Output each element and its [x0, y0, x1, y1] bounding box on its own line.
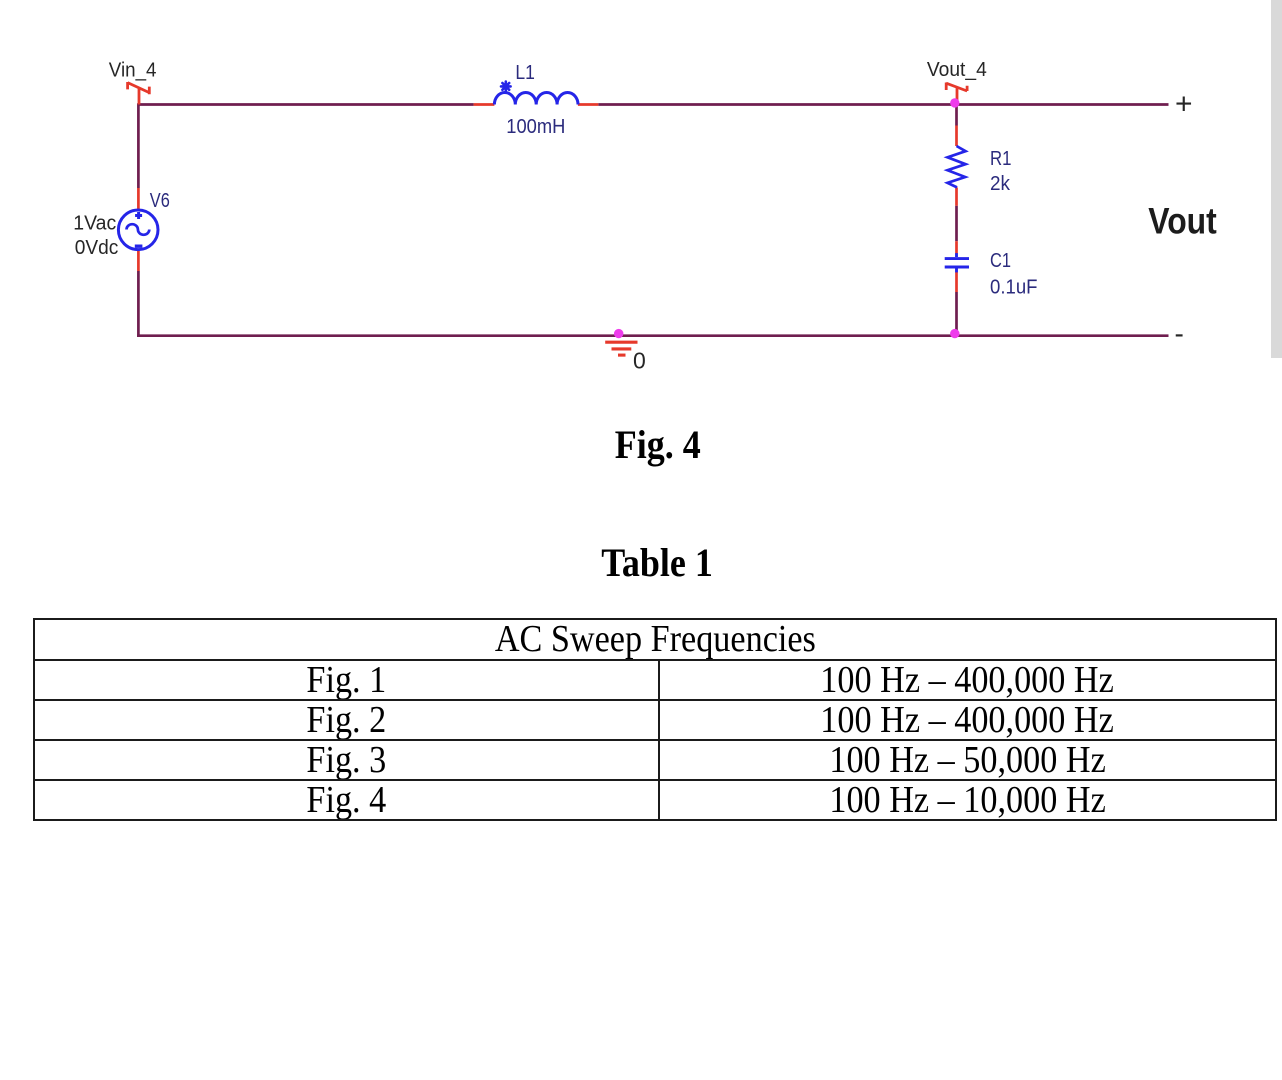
- net marker Vin_4: [128, 82, 150, 105]
- voltage source V6 circle: [118, 210, 158, 250]
- svg-text:0Vdc: 0Vdc: [75, 237, 119, 259]
- wire right branch segment mid: [955, 206, 958, 242]
- pin stub C1 top: [955, 241, 958, 253]
- V6 plus sign: [135, 212, 142, 219]
- svg-text:1Vac: 1Vac: [73, 213, 116, 235]
- svg-text:0: 0: [633, 348, 646, 374]
- svg-text:V6: V6: [150, 190, 170, 212]
- capacitor C1: [945, 253, 969, 272]
- table: AC Sweep Frequencies: [33, 618, 1277, 821]
- svg-text:R1: R1: [990, 148, 1012, 170]
- wire top right segment: [598, 103, 1168, 106]
- wire left vertical (bottom part, source bottom lead): [137, 271, 140, 337]
- svg-text:C1: C1: [990, 250, 1011, 272]
- pin stub R1 top: [955, 126, 958, 147]
- wire left vertical (top part, source top lead): [137, 103, 140, 188]
- caption Fig. 4: [35, 425, 1280, 465]
- pin stub C1 bottom: [955, 272, 958, 292]
- svg-text:0.1uF: 0.1uF: [990, 277, 1038, 299]
- net marker Vout_4: [946, 83, 967, 105]
- pin stub V6 bottom: [137, 251, 140, 271]
- junction node dot top (Vout node): [950, 98, 959, 107]
- inductor pin-1 marker (flower): [501, 82, 511, 92]
- pin stub V6 top: [137, 188, 140, 210]
- junction node dot ground: [614, 329, 623, 338]
- svg-text:-: -: [1175, 318, 1184, 349]
- svg-text:100mH: 100mH: [506, 116, 565, 138]
- caption Table 1: [35, 543, 1280, 583]
- svg-text:L1: L1: [515, 62, 535, 84]
- V6 minus sign: [135, 244, 143, 247]
- svg-text:Vout_4: Vout_4: [927, 59, 987, 81]
- inductor L1 coil: [494, 92, 578, 104]
- circuit schematic: [0, 0, 1282, 400]
- pin stub inductor left: [474, 103, 495, 106]
- wire right branch segment bottom: [955, 292, 958, 336]
- wire right branch segment top: [955, 105, 958, 126]
- svg-text:2k: 2k: [990, 173, 1011, 195]
- wire top left segment: [138, 103, 473, 106]
- window scrollbar remnant: [1271, 0, 1282, 358]
- junction node dot bottom right: [950, 329, 959, 338]
- ground symbol 0: [605, 342, 637, 355]
- pin stub inductor right: [578, 103, 598, 106]
- resistor R1 zigzag: [948, 146, 966, 187]
- svg-text:+: +: [1175, 88, 1193, 121]
- svg-text:Vout: Vout: [1148, 201, 1217, 242]
- pin stub R1 bottom: [955, 187, 958, 205]
- svg-text:Vin_4: Vin_4: [109, 60, 157, 82]
- wire bottom: [137, 334, 1168, 337]
- V6 sine wave: [127, 224, 150, 235]
